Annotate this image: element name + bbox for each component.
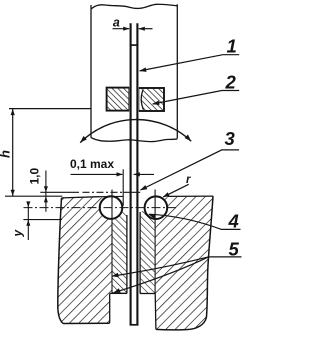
left block recess step (vertical)	[109, 293, 111, 323]
right block top edge	[168, 195, 214, 197]
guide pad 2 (left), hatched	[107, 88, 130, 111]
blade right edge	[136, 23, 138, 325]
guide pad 2 (right), hatched with white crescent relief	[139, 88, 165, 111]
roller rod 4 (left), radius r	[100, 196, 123, 219]
svg-text:3: 3	[225, 128, 236, 149]
0,1 max right shaft with left-pointing arrow at blade edge	[134, 173, 154, 175]
svg-text:4: 4	[228, 211, 239, 232]
lower break (wavy) line across arm bottom	[91, 138, 177, 142]
upper arm top break (wavy) line	[91, 4, 177, 9]
right block right edge (freehand)	[206, 196, 213, 317]
leader line for label 2	[153, 91, 240, 105]
oscillation arc (blade swing) with arrowheads both ends	[80, 120, 191, 143]
leader line for label 1	[140, 55, 240, 71]
blade left edge	[130, 23, 132, 325]
roller bottom reference line (left)	[23, 219, 62, 221]
arrow a right (pointing left)	[139, 27, 145, 31]
table surface tangent line over left roller	[100, 195, 124, 197]
left block left edge (freehand)	[58, 198, 63, 324]
dimension 1,0 line with arrows	[45, 171, 47, 212]
right block left edge below insert	[154, 294, 157, 330]
recess ledge under insert piece	[110, 292, 127, 294]
svg-text:5: 5	[229, 239, 240, 260]
bottom edge of left insert piece	[112, 292, 127, 294]
leader line for label 3	[141, 150, 240, 190]
right table block (hatched), fill	[155, 196, 213, 330]
svg-text:0,1 max: 0,1 max	[70, 157, 114, 171]
centreline (chain) through rollers	[24, 207, 177, 209]
blade top end cap	[130, 44, 139, 46]
left block bottom edge	[63, 322, 110, 324]
blade bottom end cap	[130, 324, 139, 326]
left block top edge	[62, 197, 100, 198]
right block bottom edge	[156, 318, 207, 330]
right insert piece left edge	[139, 212, 141, 294]
slot wall left of blade	[126, 215, 128, 293]
dimension y line with arrows	[27, 202, 29, 241]
left table block (hatched), with outline	[58, 197, 112, 323]
upper arm left edge	[90, 5, 92, 138]
svg-text:y: y	[11, 229, 25, 238]
saw blade (part 1) body: white core	[129, 44, 139, 325]
table surface reference line (left)	[5, 195, 62, 197]
left insert piece (hatched backslash)	[112, 211, 127, 293]
dimension a: line + arrows	[113, 28, 153, 30]
leader line for r (roller radius)	[163, 184, 188, 197]
extension line from roller for 0,1 max	[122, 169, 124, 206]
centre/junction line through right roller	[154, 190, 156, 294]
leader lines for label 5 (two)	[112, 257, 242, 276]
right insert piece (hatched backslash)	[140, 211, 155, 294]
svg-text:1: 1	[227, 35, 237, 56]
bottom edge of right insert piece	[140, 293, 155, 295]
leader line for label 4	[149, 214, 240, 229]
arrow a left (pointing right)	[123, 27, 129, 31]
centre/junction line through left roller	[111, 190, 113, 294]
svg-text:r: r	[186, 174, 191, 186]
roller rod 4 (right), radius r	[145, 196, 168, 219]
upper arm right edge	[176, 4, 178, 138]
dimension h extension line (top)	[9, 108, 91, 110]
svg-text:2: 2	[225, 71, 237, 92]
svg-text:h: h	[0, 150, 13, 158]
svg-text:1,0: 1,0	[28, 167, 42, 184]
insert top reference line (level of lips)	[40, 191, 79, 193]
dimension 0,1 max: left part with right-pointing arrow	[71, 173, 123, 175]
svg-text:a: a	[113, 15, 120, 29]
dimension h line with arrows	[12, 109, 14, 196]
